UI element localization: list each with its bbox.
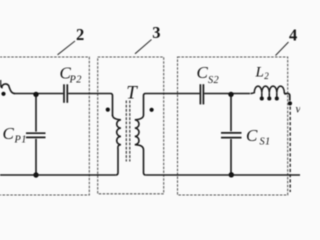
wire: junction down to C_S1 <box>230 94 232 132</box>
dashed continuation wire (cut off load) <box>289 107 291 193</box>
wire: transformer secondary to C_S2 <box>144 94 200 116</box>
svg-text:C: C <box>3 124 15 143</box>
svg-text:C: C <box>197 63 209 82</box>
wire: L2 to output elbow <box>285 94 290 101</box>
bottom rail (left segment) <box>0 174 116 176</box>
wire: C_P1 down to bottom rail <box>35 139 37 175</box>
svg-text:C: C <box>246 126 258 145</box>
wire: C_S2 to L2 <box>204 93 250 95</box>
wire: C_S1 down to bottom rail <box>230 139 232 175</box>
secondary winding of T <box>135 115 146 175</box>
svg-text:2: 2 <box>76 25 84 44</box>
inductor L2 <box>251 86 288 97</box>
svg-text:2: 2 <box>264 71 269 81</box>
wire: top left rail to C_P2 <box>14 93 63 95</box>
dashed box 3 (transformer) <box>98 57 164 194</box>
bottom rail (right segment) <box>146 174 300 176</box>
secondary polarity dot <box>150 108 154 112</box>
svg-text:v: v <box>296 104 301 116</box>
junction node (bottom of C_P1) <box>33 172 38 177</box>
polarity dot of L1 <box>1 92 5 96</box>
leader line for label 3 <box>135 40 152 54</box>
transformer core (two dashed bars) <box>126 101 130 162</box>
loop knots of L2 <box>260 96 279 100</box>
capacitor C_S1 (shunt) <box>221 133 242 138</box>
capacitor C_P2 (series) <box>64 84 67 103</box>
output node dot <box>288 101 292 105</box>
capacitor C_P1 (shunt) <box>26 133 46 137</box>
primary polarity dot <box>106 108 110 112</box>
leader line for label 2 <box>58 41 76 55</box>
wire: junction down to C_P1 <box>35 94 37 132</box>
dashed box 4 (secondary compensation) <box>178 57 288 195</box>
capacitor C_S2 (series) <box>200 84 203 104</box>
junction node (top of C_P1) <box>33 92 38 97</box>
svg-text:3: 3 <box>152 23 160 42</box>
wire: C_P2 to transformer primary <box>68 94 112 117</box>
primary winding of T <box>113 115 121 175</box>
inductor L1 (partial, cut by left edge) <box>0 80 15 94</box>
svg-text:4: 4 <box>289 26 297 45</box>
svg-text:T: T <box>126 83 138 104</box>
svg-text:L: L <box>255 64 264 80</box>
leader line for label 4 <box>276 42 289 56</box>
svg-text:S2: S2 <box>208 75 219 86</box>
dashed box 2 (primary compensation) <box>0 57 89 195</box>
svg-text:P1: P1 <box>14 135 27 146</box>
junction node (top of C_S1) <box>228 92 233 97</box>
junction node (bottom of C_S1) <box>229 172 234 177</box>
svg-text:S1: S1 <box>260 137 271 148</box>
svg-text:P2: P2 <box>69 75 82 86</box>
